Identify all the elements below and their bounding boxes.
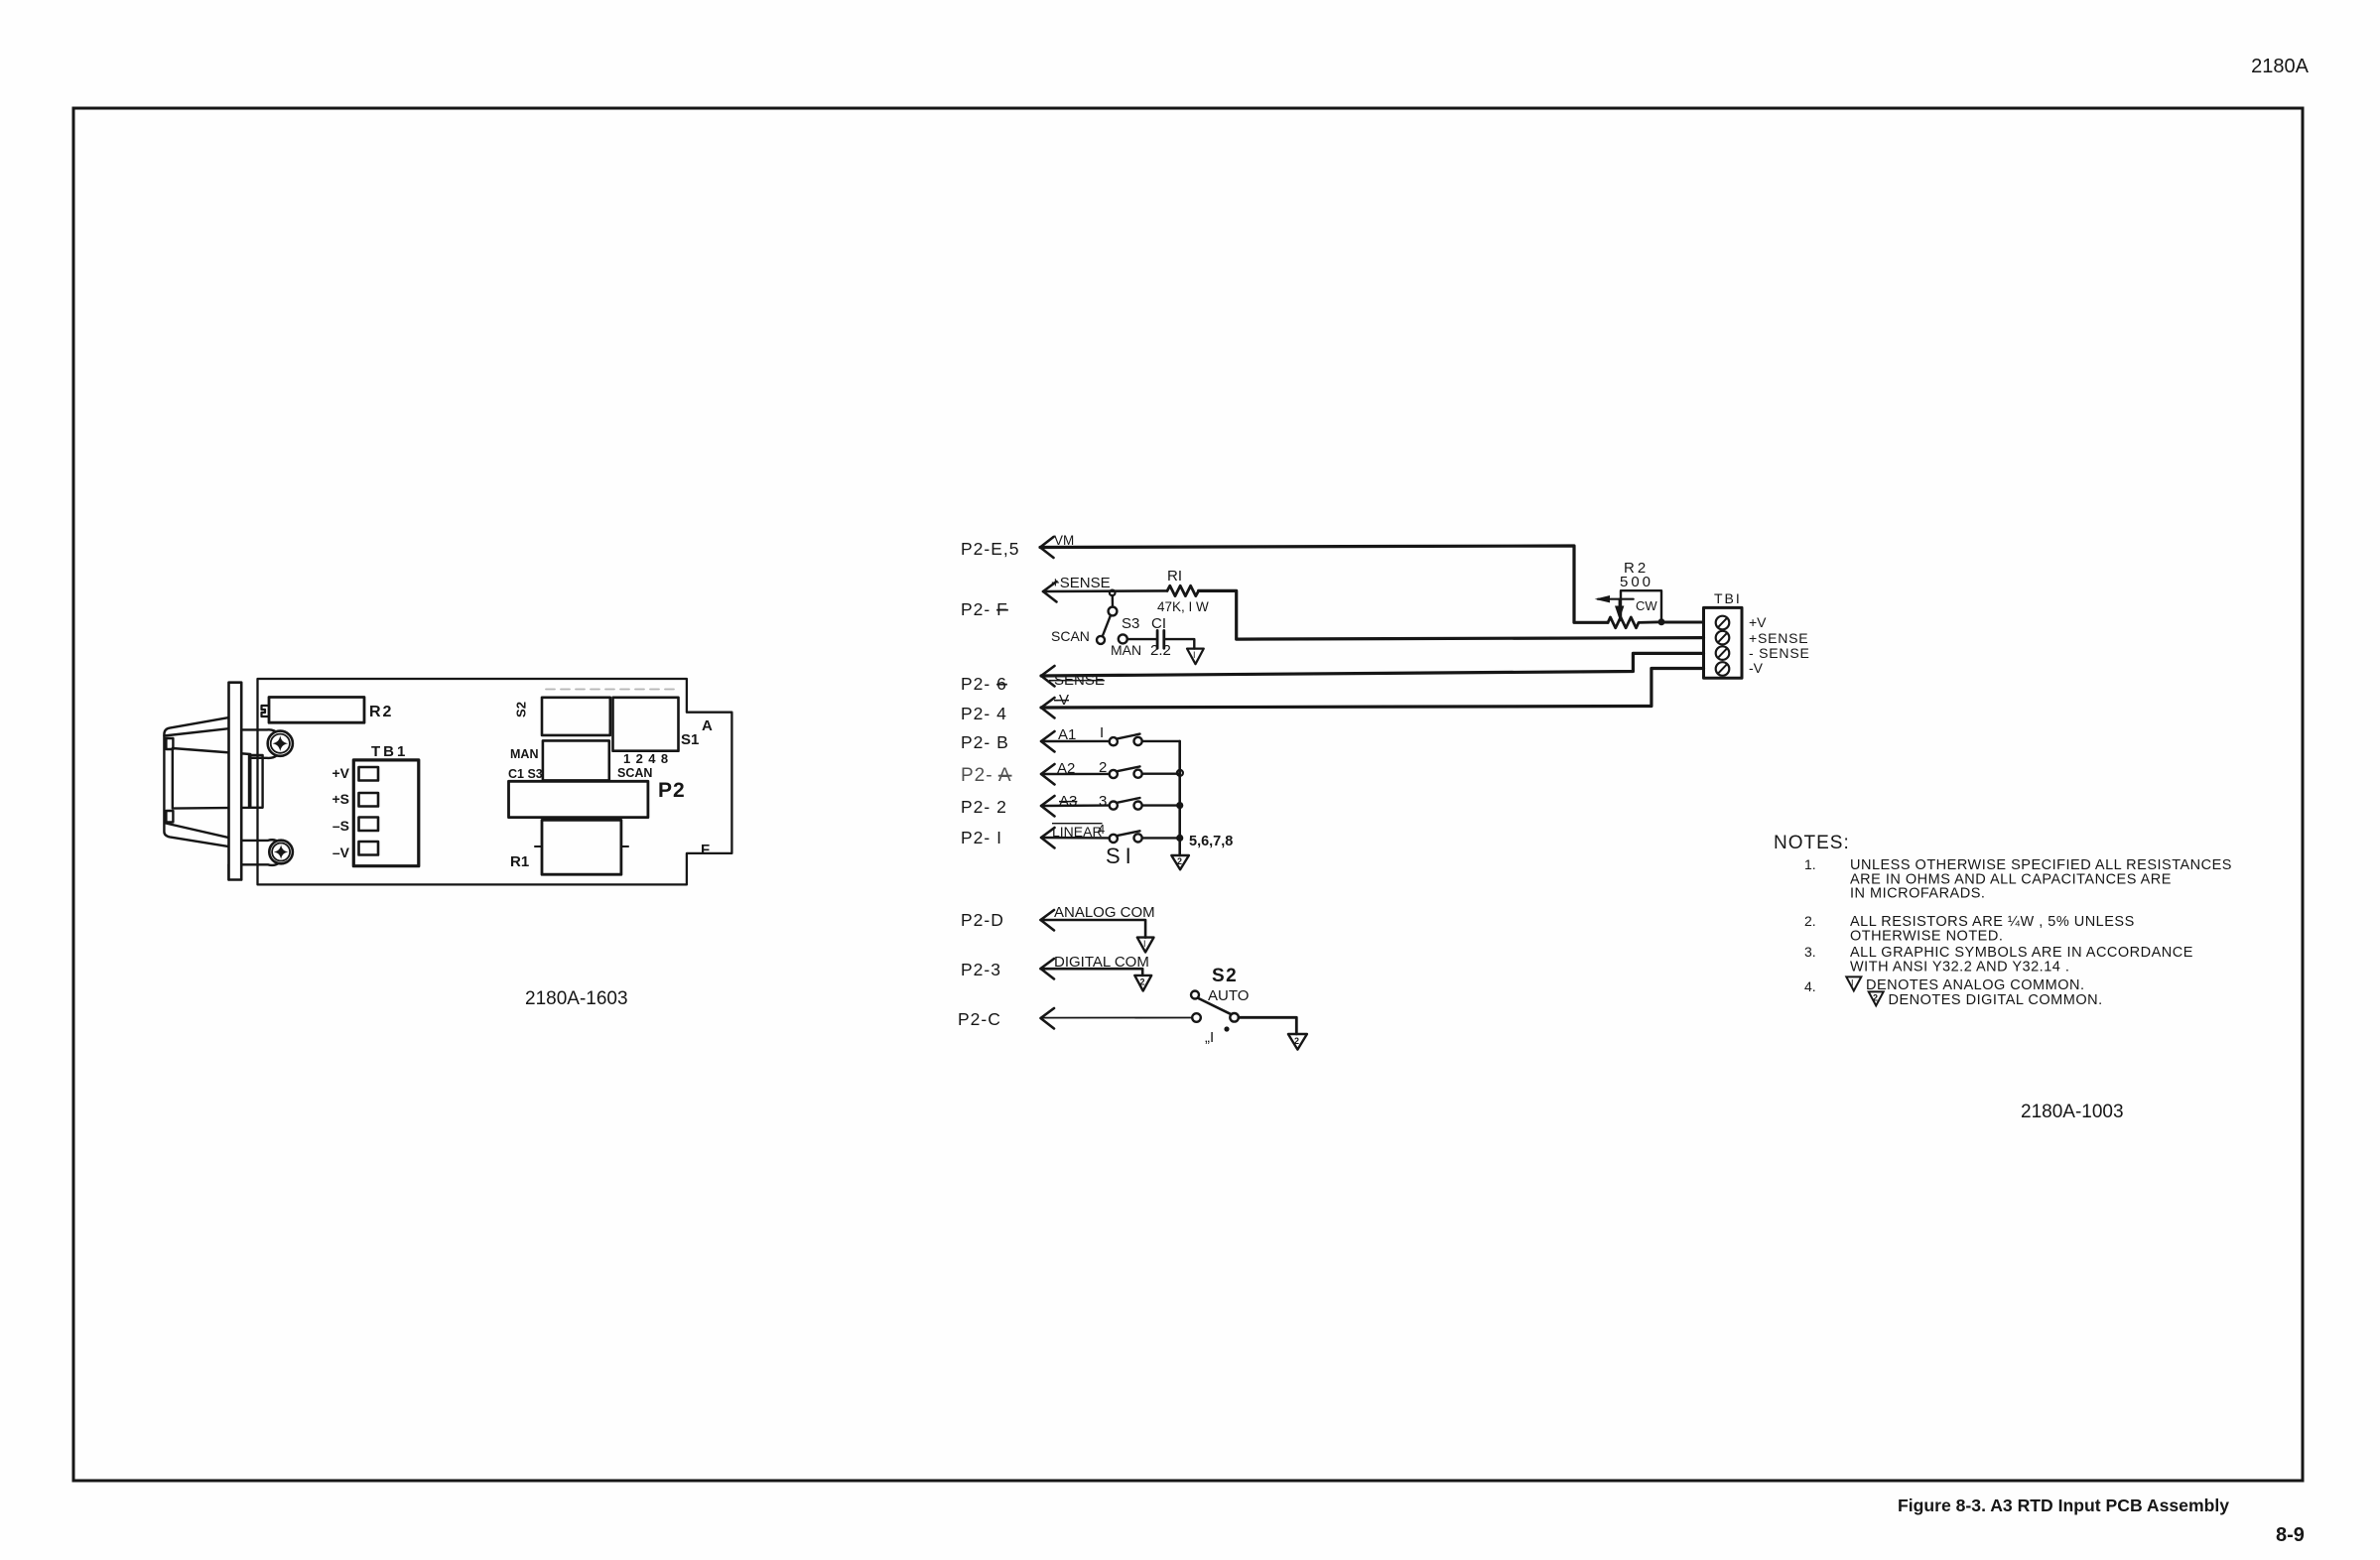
- wire S3 MAN to C1: [1127, 638, 1156, 640]
- svg-text:+SENSE: +SENSE: [1051, 575, 1111, 591]
- svg-text:Figure 8-3. A3 RTD Input PCB A: Figure 8-3. A3 RTD Input PCB Assembly: [1898, 1495, 2229, 1515]
- svg-text:47K, I W: 47K, I W: [1157, 599, 1209, 614]
- svg-text:3: 3: [1099, 793, 1107, 810]
- switch S2 AUTO contact circle: [1191, 991, 1199, 999]
- svg-text:R2: R2: [369, 704, 393, 720]
- wire ANALOG COM: arrow to analog common: [1041, 910, 1055, 931]
- svg-text:DENOTES DIGITAL COMMON.: DENOTES DIGITAL COMMON.: [1889, 992, 2103, 1008]
- TB1 screw terminal -V: [1716, 662, 1730, 676]
- svg-text:4.: 4.: [1804, 978, 1816, 994]
- switch S3 pivot circle: [1109, 607, 1118, 616]
- switch S3 stem wire: [1112, 595, 1115, 607]
- svg-text:F: F: [701, 842, 710, 858]
- svg-text:P2- 4: P2- 4: [961, 704, 1007, 723]
- analog common ground (1) at C1: [1187, 649, 1204, 665]
- resistor R1: [1167, 585, 1199, 595]
- note 4 analog common symbol: [1846, 976, 1861, 990]
- svg-text:+SENSE: +SENSE: [1749, 630, 1808, 646]
- terminal block TB1 (assembly): [353, 760, 419, 866]
- svg-text:DENOTES ANALOG COMMON.: DENOTES ANALOG COMMON.: [1866, 977, 2084, 993]
- svg-text:+V: +V: [1749, 614, 1767, 630]
- svg-text:2: 2: [1873, 993, 1878, 1003]
- svg-text:I: I: [1143, 939, 1146, 949]
- svg-text:A: A: [702, 717, 713, 734]
- switch S2 throw contact circle (P2-C side): [1192, 1013, 1201, 1022]
- svg-text:2180A: 2180A: [2251, 56, 2309, 77]
- switch S1 section 2: [1110, 770, 1118, 778]
- svg-text:I: I: [1851, 978, 1854, 988]
- R2 wiper arrow (down onto element): [1619, 599, 1621, 607]
- switch S3 SCAN contact circle: [1097, 636, 1105, 644]
- wire +SENSE: arrow to S3 node and R1: [1043, 582, 1057, 602]
- svg-text:-V: -V: [1749, 660, 1764, 676]
- svg-text:P2- F: P2- F: [961, 599, 1008, 619]
- switch S3 arm to SCAN contact: [1103, 615, 1111, 636]
- svg-text:500: 500: [1620, 574, 1653, 590]
- svg-text:P2- 6: P2- 6: [961, 674, 1007, 694]
- svg-text:–V: –V: [332, 845, 350, 860]
- switch S3 common node circle on +SENSE wire: [1110, 590, 1116, 596]
- resistor R2 (assembly): [269, 698, 364, 723]
- svg-text:P2-E,5: P2-E,5: [961, 539, 1020, 559]
- svg-text:P2- I: P2- I: [961, 828, 1002, 847]
- wire S1-3 to bus: [1142, 804, 1180, 806]
- node junction on bus row 3 (solder dot): [1176, 802, 1183, 809]
- switch S3 body (assembly): [543, 740, 609, 780]
- bus wire S1 commons to digital common: [1178, 741, 1181, 855]
- S2 dashed lid outline: [546, 689, 678, 691]
- svg-text:SCAN: SCAN: [617, 766, 652, 780]
- svg-text:2.2: 2.2: [1150, 642, 1171, 659]
- svg-text:CI: CI: [1151, 615, 1166, 632]
- svg-text:P2- 2: P2- 2: [961, 797, 1007, 817]
- wire R2 to TB1 +V: [1661, 621, 1704, 624]
- svg-text:2: 2: [1140, 977, 1145, 987]
- wire A3: arrow to S1-3: [1041, 796, 1055, 817]
- switch S2 arm: [1199, 998, 1232, 1014]
- svg-text:1248: 1248: [623, 751, 674, 766]
- node junction on bus row 2 (open): [1177, 770, 1183, 776]
- analog common ground (1) at P2-D: [1137, 938, 1154, 953]
- svg-text:ANALOG COM: ANALOG COM: [1054, 904, 1155, 921]
- note 4 digital common symbol: [1869, 991, 1884, 1005]
- wire VM: P2-E,5 arrow to R2 top wiper feed: [1040, 537, 1054, 558]
- wire -V: P2-4 arrow to TB1: [1041, 698, 1055, 718]
- connector mounting flange: [229, 683, 242, 880]
- svg-text:SI: SI: [1106, 844, 1136, 868]
- node junction R2 / TB1 +V (solder dot): [1658, 618, 1665, 625]
- svg-text:+V: +V: [331, 765, 349, 781]
- wire P2-C: arrow to S2: [1041, 1008, 1055, 1029]
- switch S1 section 1: [1110, 737, 1118, 745]
- svg-text:P2-3: P2-3: [961, 960, 1001, 979]
- switch S2 pivot contact circle: [1230, 1013, 1239, 1022]
- resistor R1 (assembly): [542, 820, 621, 874]
- TB1 screw terminal +V: [1716, 616, 1730, 630]
- R2 CW box: [1621, 590, 1661, 620]
- wire C1 to analog common: [1164, 639, 1195, 649]
- wire -SENSE: P2-6 arrow to TB1: [1041, 666, 1055, 687]
- svg-text:P2-D: P2-D: [961, 910, 1004, 930]
- svg-text:IN MICROFARADS.: IN MICROFARADS.: [1850, 886, 1985, 902]
- svg-text:2180A-1603: 2180A-1603: [525, 988, 628, 1009]
- svg-text:P2-C: P2-C: [958, 1009, 1001, 1029]
- potentiometer R2 body: [1608, 617, 1661, 628]
- svg-text:MAN: MAN: [510, 747, 538, 761]
- svg-text:„I: „I: [1205, 1029, 1214, 1046]
- svg-text:OTHERWISE NOTED.: OTHERWISE NOTED.: [1850, 929, 2003, 945]
- switch S2 (assembly): [542, 698, 610, 735]
- svg-text:8-9: 8-9: [2276, 1524, 2305, 1546]
- svg-text:S2: S2: [1212, 966, 1238, 986]
- svg-text:VM: VM: [1054, 533, 1074, 548]
- svg-text:SCAN: SCAN: [1051, 628, 1090, 644]
- svg-text:3.: 3.: [1804, 944, 1816, 960]
- switch S1 section 3: [1110, 802, 1118, 810]
- svg-text:TBI: TBI: [1714, 590, 1742, 606]
- svg-text:S2: S2: [514, 702, 529, 717]
- svg-text:2: 2: [1177, 856, 1182, 866]
- wire S1-1 to bus: [1142, 740, 1180, 742]
- switch S1 (assembly): [613, 698, 679, 751]
- svg-text:CW: CW: [1636, 598, 1657, 613]
- svg-text:R1: R1: [510, 853, 529, 870]
- wire LINEAR: arrow to S1-4: [1041, 828, 1055, 848]
- svg-text:2: 2: [1294, 1036, 1299, 1046]
- svg-text:WITH ANSI Y32.2 AND Y32.14 .: WITH ANSI Y32.2 AND Y32.14 .: [1850, 960, 2069, 975]
- svg-text:AUTO: AUTO: [1208, 987, 1249, 1004]
- terminal block TB1: [1704, 607, 1743, 678]
- svg-text:1.: 1.: [1804, 856, 1816, 872]
- svg-text:P2: P2: [658, 779, 686, 802]
- wire S1-4 to bus: [1142, 837, 1180, 839]
- wire S1-2 to bus: [1142, 773, 1180, 775]
- svg-text:P2- B: P2- B: [961, 732, 1009, 752]
- svg-text:S1: S1: [681, 731, 699, 748]
- PCB A3 board outline: [258, 679, 732, 884]
- R2 adjust direction arrow (left): [1598, 598, 1634, 600]
- wire R1 output to TB1 +SENSE: [1199, 590, 1704, 639]
- switch S3 MAN contact circle: [1119, 634, 1127, 643]
- svg-text:A3: A3: [1059, 793, 1077, 810]
- svg-text:P2- A: P2- A: [961, 765, 1012, 786]
- svg-text:+S: +S: [331, 791, 349, 807]
- switch S1 section 4: [1110, 835, 1118, 843]
- node junction on bus row 4 (solder dot): [1176, 835, 1183, 842]
- wire S2 pivot to digital common: [1239, 1017, 1296, 1034]
- mounting screw top: [268, 731, 293, 756]
- connector P2 (assembly): [509, 781, 648, 817]
- svg-text:RI: RI: [1167, 568, 1182, 585]
- svg-text:4: 4: [1098, 822, 1105, 837]
- svg-text:2.: 2.: [1804, 913, 1816, 929]
- svg-text:I: I: [1193, 650, 1196, 660]
- digital common ground (2) below S1: [1171, 855, 1189, 869]
- svg-text:2180A-1003: 2180A-1003: [2021, 1102, 2124, 1122]
- wire A1: arrow to S1-1: [1041, 731, 1055, 752]
- svg-text:MAN: MAN: [1111, 642, 1141, 658]
- mounting screw bottom: [269, 841, 293, 864]
- svg-text:NOTES:: NOTES:: [1774, 833, 1850, 853]
- wire A2: arrow to S1-2: [1041, 764, 1055, 785]
- svg-text:I: I: [1100, 724, 1104, 741]
- svg-text:- SENSE: - SENSE: [1749, 645, 1810, 661]
- svg-text:5,6,7,8: 5,6,7,8: [1189, 834, 1233, 849]
- wire DIGITAL COM: arrow to digital common: [1041, 959, 1055, 979]
- svg-text:–S: –S: [332, 818, 349, 834]
- edge connector housing (side view): [164, 717, 284, 879]
- TB1 screw terminal -SENSE: [1716, 646, 1730, 660]
- svg-text:TB1: TB1: [371, 743, 408, 760]
- TB1 screw terminal +SENSE: [1716, 631, 1730, 645]
- svg-text:C1 S3: C1 S3: [508, 767, 543, 781]
- capacitor C1: [1156, 630, 1159, 648]
- TB1 terminal squares: [359, 767, 379, 781]
- svg-text:S3: S3: [1122, 615, 1139, 632]
- digital common ground (2) at P2-3: [1134, 975, 1151, 991]
- digital common ground (2) at S2: [1288, 1034, 1307, 1050]
